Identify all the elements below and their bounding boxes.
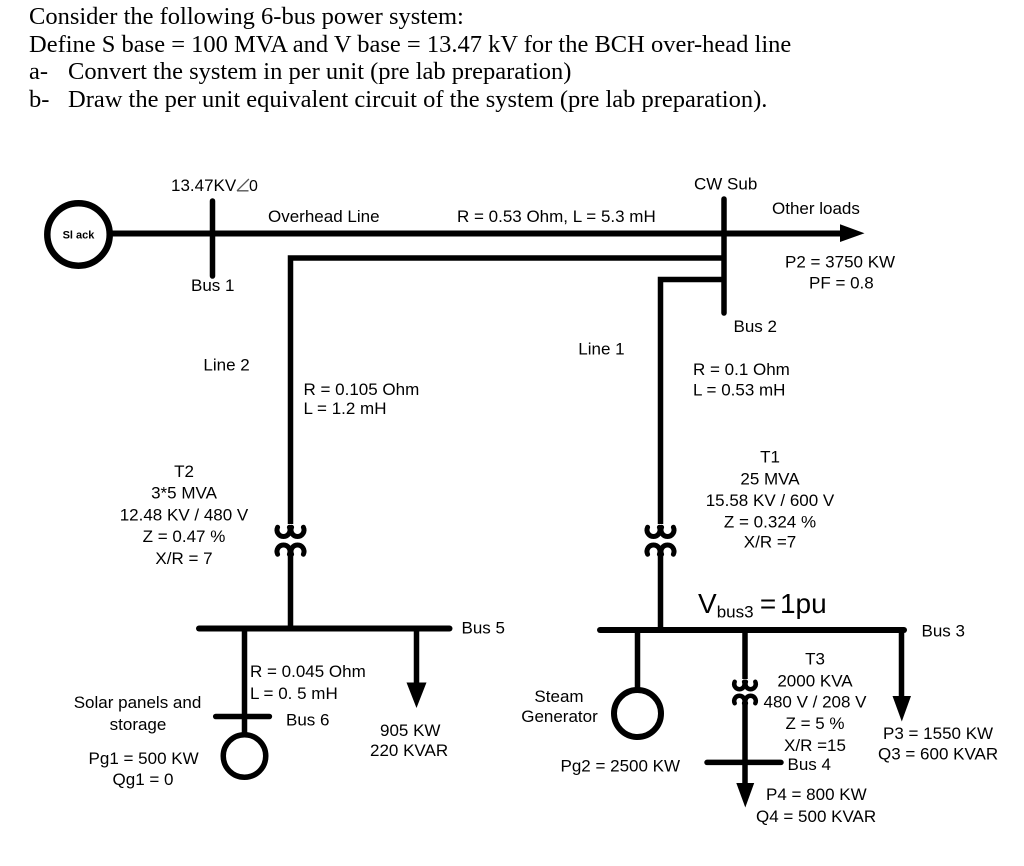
svg-text:P2 = 3750 KW: P2 = 3750 KW (785, 253, 895, 272)
svg-text:PF = 0.8: PF = 0.8 (809, 274, 874, 293)
problem statement text (29, 3, 791, 113)
wire Bus5 to Bus6 generator (242, 629, 248, 735)
svg-text:Bus 2: Bus 2 (734, 317, 777, 336)
transformer T3 winding primary (734, 682, 756, 689)
label T2 block (120, 462, 249, 568)
svg-text:Bus 1: Bus 1 (191, 276, 234, 295)
svg-text:R = 0.105 Ohm: R = 0.105 Ohm (304, 380, 420, 399)
svg-text:25 MVA: 25 MVA (740, 470, 800, 489)
svg-text:X/R = 7: X/R = 7 (155, 549, 212, 568)
svg-text:220 KVAR: 220 KVAR (370, 741, 448, 760)
svg-text:Other loads: Other loads (772, 199, 860, 218)
svg-text:13.47KV: 13.47KV (171, 176, 237, 195)
svg-text:Bus 5: Bus 5 (462, 619, 505, 638)
svg-text:storage: storage (110, 715, 167, 734)
label T1 block (706, 448, 835, 552)
svg-text:15.58 KV / 600 V: 15.58 KV / 600 V (706, 491, 835, 510)
svg-text:Solar panels and: Solar panels and (74, 693, 202, 712)
wire main overhead line Bus1-Bus2 (109, 231, 842, 237)
svg-text:T2: T2 (174, 462, 194, 481)
wire Line 2 (Bus2 to T2) (291, 258, 725, 524)
svg-text:L = 0. 5 mH: L = 0. 5 mH (250, 684, 338, 703)
wire Bus3 to steam generator (635, 630, 641, 692)
svg-text:Line 2: Line 2 (203, 356, 249, 375)
angle symbol (237, 179, 249, 191)
bus bar Bus 6 (216, 714, 270, 720)
label Solar panels and storage (74, 693, 202, 789)
svg-text:X/R =15: X/R =15 (784, 736, 846, 755)
svg-text:12.48 KV / 480 V: 12.48 KV / 480 V (120, 505, 249, 524)
svg-text:Vbus3 = 1pu: Vbus3 = 1pu (698, 588, 827, 622)
svg-text:Z = 5 %: Z = 5 % (785, 714, 844, 733)
svg-text:Q3 = 600 KVAR: Q3 = 600 KVAR (878, 745, 998, 764)
bus bar Bus 2 (721, 199, 727, 313)
svg-text:Steam: Steam (534, 687, 583, 706)
transformer T2 winding secondary (277, 545, 304, 554)
svg-text:Generator: Generator (521, 707, 598, 726)
svg-text:R = 0.045 Ohm: R = 0.045 Ohm (250, 662, 366, 681)
bus bar Bus 5 (199, 626, 450, 632)
svg-text:Pg2 = 2500 KW: Pg2 = 2500 KW (561, 757, 681, 776)
svg-text:0: 0 (249, 178, 258, 195)
svg-text:905 KW: 905 KW (380, 721, 440, 740)
transformer T1 winding secondary (647, 545, 674, 554)
svg-text:P4 = 800 KW: P4 = 800 KW (766, 785, 867, 804)
svg-text:P3 = 1550 KW: P3 = 1550 KW (883, 724, 993, 743)
wire Line 1 (Bus2 to T1) (661, 280, 725, 525)
svg-text:R = 0.1 Ohm: R = 0.1 Ohm (693, 360, 790, 379)
wire T3 to Bus 4 (742, 702, 748, 784)
label T3 block (763, 650, 867, 755)
svg-text:Pg1 = 500 KW: Pg1 = 500 KW (89, 749, 199, 768)
svg-text:480 V / 208 V: 480 V / 208 V (763, 693, 867, 712)
svg-text:3*5 MVA: 3*5 MVA (151, 484, 217, 503)
svg-text:R = 0.53 Ohm, L = 5.3 mH: R = 0.53 Ohm, L = 5.3 mH (457, 207, 656, 226)
svg-text:Overhead Line: Overhead Line (268, 207, 380, 226)
svg-text:2000 KVA: 2000 KVA (777, 671, 853, 690)
wire T1 secondary to Bus 3 (658, 556, 664, 630)
svg-text:Sl ack: Sl ack (63, 230, 96, 242)
label Steam Generator (521, 687, 598, 726)
bus bar Bus 3 (600, 627, 904, 633)
transformer T2 winding primary (277, 527, 304, 536)
load arrow at Bus 5 (414, 629, 420, 685)
svg-text:CW Sub: CW Sub (694, 175, 757, 194)
generator G1 solar circle (223, 735, 266, 778)
svg-text:Q4 = 500 KVAR: Q4 = 500 KVAR (756, 807, 876, 826)
svg-text:Bus 6: Bus 6 (286, 711, 329, 730)
transformer T3 winding secondary (734, 696, 756, 703)
svg-text:Line 1: Line 1 (578, 339, 624, 358)
bus bar Bus 1 (210, 201, 216, 276)
arrowhead other-loads (840, 224, 865, 242)
wire T2 secondary to Bus 5 (288, 556, 294, 629)
bus bar Bus 4 (707, 760, 781, 766)
generator G2 steam circle (614, 690, 661, 737)
svg-text:Bus 3: Bus 3 (922, 622, 965, 641)
svg-text:T3: T3 (805, 650, 825, 669)
svg-text:T1: T1 (760, 448, 780, 467)
svg-text:Z = 0.47 %: Z = 0.47 % (143, 527, 226, 546)
svg-text:L = 0.53 mH: L = 0.53 mH (693, 380, 785, 399)
generator G-slack circle (47, 203, 109, 265)
svg-text:X/R =7: X/R =7 (744, 533, 796, 552)
load arrow P4 at Bus 4 (736, 783, 754, 808)
svg-text:Bus 4: Bus 4 (788, 755, 831, 774)
load arrow P3 at Bus 3 (899, 630, 905, 698)
wire Bus3 to T3 (742, 630, 748, 679)
svg-text:Z = 0.324 %: Z = 0.324 % (724, 513, 816, 532)
transformer T1 winding primary (647, 527, 674, 536)
svg-text:L = 1.2 mH: L = 1.2 mH (304, 399, 387, 418)
svg-text:Qg1 = 0: Qg1 = 0 (113, 770, 174, 789)
